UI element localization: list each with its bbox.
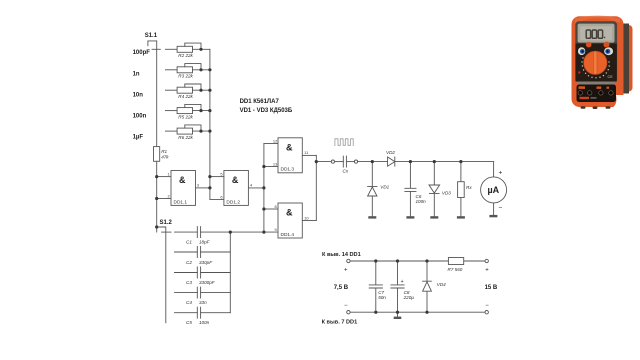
wire DD1.2 pin5 xyxy=(210,176,224,178)
node C8 bottom xyxy=(396,311,399,314)
wire capacitor bank bus xyxy=(229,232,231,313)
terminal circle 15V plus xyxy=(485,259,488,262)
svg-text:R1: R1 xyxy=(161,149,167,154)
capacitor C1 18pF xyxy=(197,227,200,238)
lcd digit 2 xyxy=(592,30,596,38)
capacitor Cx probe xyxy=(343,156,346,167)
node R4 bus junction xyxy=(208,89,211,92)
node VD1 xyxy=(371,160,374,163)
ground Rx xyxy=(457,216,465,218)
svg-text:CE: CE xyxy=(608,75,614,79)
svg-text:R6 22k: R6 22k xyxy=(178,135,193,140)
node R6 bus junction xyxy=(208,130,211,133)
svg-text:7,5 В: 7,5 В xyxy=(334,285,349,291)
capacitor C3 3300pF xyxy=(197,267,200,278)
svg-text:−: − xyxy=(344,303,348,309)
node DD1.1 pin3 xyxy=(208,186,211,189)
svg-text:К выв. 14 DD1: К выв. 14 DD1 xyxy=(322,252,361,258)
svg-text:100pF: 100pF xyxy=(133,50,151,56)
zener diode VD4 xyxy=(423,261,432,312)
ground C6 xyxy=(406,216,414,218)
ground meter xyxy=(489,215,497,217)
body top highlight xyxy=(575,16,620,24)
lcd digit 3 xyxy=(598,30,602,38)
svg-text:1µF: 1µF xyxy=(133,134,144,140)
node S1.2 common xyxy=(155,225,158,228)
node R3 bus junction xyxy=(208,68,211,71)
terminal circle 15V minus xyxy=(485,311,488,314)
eye right xyxy=(604,47,614,56)
wire resistor bus to DD1.2 pin6 xyxy=(210,49,224,199)
capacitor C5 100n xyxy=(197,307,200,318)
jack holes xyxy=(578,91,613,95)
svg-text:DD1.4: DD1.4 xyxy=(281,232,295,238)
wire contact2 to C2 xyxy=(175,251,231,253)
svg-text:12: 12 xyxy=(273,138,278,143)
orange bump right xyxy=(604,42,610,48)
feet xyxy=(581,106,586,109)
wire to Cx xyxy=(335,161,344,163)
node C6 xyxy=(409,160,412,163)
svg-text:R7 560: R7 560 xyxy=(448,267,463,272)
diode VD2 xyxy=(388,157,395,166)
wire DD1.1 pin3 output xyxy=(196,187,210,189)
diode VD3 xyxy=(429,162,440,217)
node output junction xyxy=(315,160,318,163)
svg-text:3300pF: 3300pF xyxy=(199,280,216,285)
wire Cx to terminal xyxy=(346,161,354,163)
wire R1 to DD1.1 inputs and S1.2 xyxy=(156,161,158,232)
svg-text:&: & xyxy=(232,175,239,185)
ground VD3 xyxy=(430,216,438,218)
svg-text:C1: C1 xyxy=(186,240,192,245)
svg-text:330pF: 330pF xyxy=(199,260,213,265)
wire contact3 to R4 xyxy=(165,89,177,91)
terminal circle Cx left xyxy=(331,160,334,163)
terminal circle 14DD1 xyxy=(347,259,350,262)
power rail bottom wire xyxy=(350,311,485,313)
wire contact4 to R5 xyxy=(165,110,177,112)
svg-text:DD1.2: DD1.2 xyxy=(226,199,240,205)
wire to DD1.1 pin1 xyxy=(157,176,171,178)
ground C8 xyxy=(394,317,402,319)
node DD1.4 pin9 xyxy=(262,231,265,234)
terminal circle 7DD1 xyxy=(347,311,350,314)
wire output bus xyxy=(315,155,317,220)
resistor R7 560 xyxy=(448,258,463,265)
resistor R3 22k xyxy=(177,67,192,73)
capacitor C4 33n xyxy=(197,287,200,298)
svg-text:VD1: VD1 xyxy=(380,184,389,189)
wire to DD1.3 pin12 xyxy=(264,143,278,145)
multimeter side sliver orange xyxy=(623,25,633,92)
wire to DD1.1 pin2 xyxy=(157,198,171,200)
svg-text:18pF: 18pF xyxy=(199,240,211,245)
wire contact1 to R2 xyxy=(165,48,177,50)
svg-text:R4 22k: R4 22k xyxy=(178,94,193,99)
wire to DD1.3 pin13 xyxy=(264,166,278,168)
svg-text:−: − xyxy=(485,303,489,309)
dial tick ring xyxy=(581,57,610,78)
svg-text:VD3: VD3 xyxy=(442,191,451,196)
wire mid bus xyxy=(263,144,265,233)
svg-text:C3: C3 xyxy=(186,280,192,285)
svg-text:13: 13 xyxy=(273,161,278,166)
lcd display xyxy=(580,26,612,40)
wire DD1.2 pin4 output to mid bus xyxy=(248,187,264,189)
multimeter face bezel xyxy=(575,21,617,82)
capacitor C2 330pF xyxy=(197,247,200,258)
capacitor C8 220u xyxy=(391,261,404,317)
node R5 wiper junction xyxy=(199,109,202,112)
eye left xyxy=(578,47,586,55)
multimeter soft right shadow xyxy=(629,28,633,90)
svg-text:µA: µA xyxy=(488,185,500,195)
svg-text:DD1.1: DD1.1 xyxy=(174,199,188,205)
wire contact5 to C5 xyxy=(175,312,231,314)
power rail top wire xyxy=(350,260,485,262)
resistor R5 22k xyxy=(177,108,192,114)
node C7 top xyxy=(374,259,377,262)
wire S1.1 common rail to R1 xyxy=(156,41,158,147)
battery seam strip xyxy=(578,82,616,85)
rotary dial xyxy=(584,51,607,74)
node DD1.2 pin4 xyxy=(262,186,265,189)
node C1 bus xyxy=(229,231,232,234)
body corner trim xyxy=(612,95,626,108)
svg-text:10n: 10n xyxy=(133,93,144,99)
svg-text:S1.1: S1.1 xyxy=(145,33,158,39)
node DD1.3 pin13 xyxy=(262,165,265,168)
svg-text:10: 10 xyxy=(304,215,309,220)
jack labels orange xyxy=(579,86,586,89)
node R5 bus junction xyxy=(208,109,211,112)
wire DD1.4 pin10 output xyxy=(302,220,316,222)
svg-text:VD4: VD4 xyxy=(437,282,446,287)
svg-text:100n: 100n xyxy=(416,199,427,204)
wire contact2 to R3 xyxy=(165,69,177,71)
resistor R2 22k xyxy=(177,46,192,52)
svg-text:1n: 1n xyxy=(133,71,140,77)
svg-text:DD1.3: DD1.3 xyxy=(281,167,295,173)
wire contact3 to C3 xyxy=(175,272,231,274)
wire contact5 to R6 xyxy=(165,130,177,132)
square wave symbol xyxy=(335,139,353,146)
node DD1.1 pin2 xyxy=(155,197,158,200)
svg-text:220µ: 220µ xyxy=(403,295,415,300)
svg-text:+: + xyxy=(485,268,489,274)
svg-text:15 В: 15 В xyxy=(485,285,498,291)
multimeter body xyxy=(572,16,624,107)
svg-text:R5 22k: R5 22k xyxy=(178,115,193,120)
lcd decimal xyxy=(604,37,606,39)
multimeter side band dark xyxy=(621,24,629,94)
svg-text:50n: 50n xyxy=(378,295,386,300)
svg-text:−: − xyxy=(499,205,503,212)
resistor R1 47k xyxy=(154,147,160,162)
node Rx xyxy=(459,160,462,163)
svg-text:+: + xyxy=(344,268,348,274)
microammeter PA1 xyxy=(493,162,495,177)
node VD4 top xyxy=(425,259,428,262)
node VD4 bottom xyxy=(425,311,428,314)
capacitor C6 100n xyxy=(405,162,416,217)
svg-text:&: & xyxy=(286,143,293,153)
wire contact to C1 and DD1.4 pin9 xyxy=(175,231,279,233)
node DD1.2 pin5 xyxy=(208,175,211,178)
svg-text:Cx: Cx xyxy=(343,169,349,174)
node R4 wiper junction xyxy=(199,89,202,92)
svg-text:DD1 К561ЛА7: DD1 К561ЛА7 xyxy=(240,99,280,105)
switch S1.1 wiper contact position1 xyxy=(152,48,160,50)
resistor R6 22k xyxy=(177,128,192,134)
svg-text:VD1 - VD3 КД503Б: VD1 - VD3 КД503Б xyxy=(240,108,293,114)
svg-text:C5: C5 xyxy=(186,320,192,325)
dial pointer xyxy=(594,51,597,74)
node C8 top xyxy=(396,259,399,262)
svg-text:C2: C2 xyxy=(186,260,192,265)
svg-text:К выв. 7 DD1: К выв. 7 DD1 xyxy=(322,319,358,325)
red mark left xyxy=(578,71,580,73)
svg-text:33n: 33n xyxy=(199,300,207,305)
ground VD1 xyxy=(368,216,376,218)
wire to DD1.4 pin8 xyxy=(264,208,278,210)
switch S1.1 common bracket xyxy=(148,41,157,46)
wire DD1.3 pin11 output xyxy=(302,154,316,156)
svg-text:100n: 100n xyxy=(133,114,147,120)
svg-text:VD2: VD2 xyxy=(386,150,395,155)
node R6 wiper junction xyxy=(199,130,202,133)
svg-text:S1.2: S1.2 xyxy=(160,220,173,226)
node C7 bottom xyxy=(374,311,377,314)
wire VD2 to meter line xyxy=(395,161,494,163)
gate DD1.2 xyxy=(224,171,249,206)
svg-text:R2 22k: R2 22k xyxy=(178,53,193,58)
jack panel xyxy=(577,85,617,103)
svg-text:&: & xyxy=(179,175,186,185)
resistor R4 22k xyxy=(177,87,192,93)
wire terminal to VD2 xyxy=(358,161,388,163)
capacitor C7 50n xyxy=(369,261,382,312)
node R2 wiper junction xyxy=(199,48,202,51)
multimeter dial face xyxy=(576,44,617,82)
lcd digit 1 xyxy=(586,30,590,38)
node VD3 xyxy=(433,160,436,163)
resistor Rx xyxy=(460,162,462,217)
svg-text:47k: 47k xyxy=(161,155,169,160)
switch S1.2 wiper contact position1 xyxy=(162,231,171,233)
node DD1.4 pin8 xyxy=(262,207,265,210)
brand text smudge xyxy=(580,97,590,99)
svg-text:100n: 100n xyxy=(199,320,210,325)
switch S1.2 common bracket xyxy=(157,227,166,323)
wire contact4 to C4 xyxy=(175,292,231,294)
svg-text:C4: C4 xyxy=(186,300,192,305)
node DD1.1 pin1 xyxy=(155,175,158,178)
svg-text:Rx: Rx xyxy=(466,185,472,190)
svg-text:&: & xyxy=(286,208,293,218)
diode VD1 xyxy=(368,162,377,217)
svg-text:R3 22k: R3 22k xyxy=(178,74,193,79)
gate DD1.3 xyxy=(278,138,302,173)
terminal circle Cx right xyxy=(354,160,357,163)
svg-text:+: + xyxy=(499,170,503,177)
gate DD1.1 xyxy=(171,171,196,206)
node R3 wiper junction xyxy=(199,68,202,71)
gate DD1.4 xyxy=(278,203,302,238)
lcd silver frame xyxy=(578,24,615,43)
wire output to Cx terminal xyxy=(316,161,331,163)
svg-text:+: + xyxy=(401,279,404,285)
orange bump left xyxy=(586,42,592,48)
